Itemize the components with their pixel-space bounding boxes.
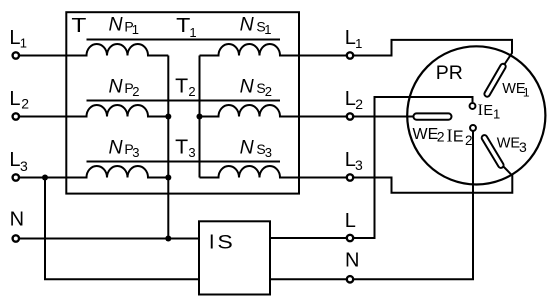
svg-text:2: 2 [437, 129, 445, 145]
svg-text:2: 2 [355, 96, 363, 112]
svg-text:T: T [71, 14, 87, 37]
svg-text:1: 1 [20, 36, 27, 51]
svg-text:3: 3 [265, 145, 272, 160]
svg-text:2: 2 [265, 84, 272, 99]
svg-text:T: T [175, 75, 188, 97]
svg-text:3: 3 [188, 145, 195, 160]
svg-text:T: T [176, 15, 190, 37]
svg-text:IE: IE [447, 125, 464, 145]
svg-text:T: T [175, 136, 188, 158]
svg-text:L: L [9, 88, 20, 110]
svg-text:1: 1 [264, 22, 271, 37]
svg-text:PR: PR [436, 62, 463, 84]
svg-text:3: 3 [20, 158, 28, 174]
svg-text:N: N [240, 14, 255, 36]
svg-text:1: 1 [523, 86, 530, 100]
svg-text:2: 2 [132, 84, 139, 99]
svg-text:1: 1 [493, 106, 500, 121]
svg-text:WE: WE [497, 136, 521, 152]
svg-text:1: 1 [132, 22, 139, 37]
svg-text:L: L [345, 210, 356, 232]
svg-text:S: S [217, 233, 232, 254]
svg-text:N: N [240, 136, 255, 158]
svg-text:N: N [345, 250, 359, 272]
svg-text:L: L [9, 149, 20, 171]
svg-text:3: 3 [519, 139, 527, 155]
svg-text:2: 2 [188, 84, 195, 99]
svg-text:IE: IE [478, 102, 494, 119]
svg-text:3: 3 [132, 145, 139, 160]
svg-text:1: 1 [189, 25, 196, 40]
svg-text:N: N [240, 75, 255, 97]
svg-text:L: L [345, 88, 356, 110]
svg-text:N: N [109, 136, 124, 158]
svg-text:N: N [109, 75, 124, 97]
svg-text:1: 1 [355, 36, 362, 51]
svg-text:N: N [10, 209, 24, 231]
svg-text:I: I [209, 231, 215, 254]
svg-text:2: 2 [465, 133, 473, 148]
svg-text:N: N [109, 14, 124, 36]
svg-text:3: 3 [355, 157, 363, 173]
svg-text:2: 2 [21, 96, 29, 112]
svg-text:WE: WE [413, 126, 439, 143]
